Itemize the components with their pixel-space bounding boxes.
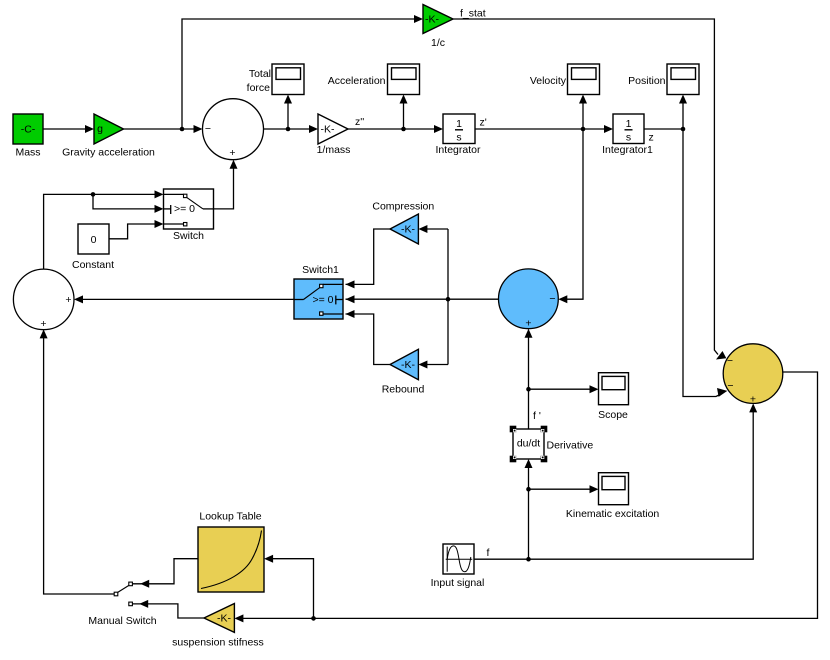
svg-text:Constant: Constant: [72, 259, 114, 271]
svg-text:Acceleration: Acceleration: [328, 75, 386, 87]
svg-text:f ': f ': [533, 410, 541, 422]
svg-text:1/c: 1/c: [431, 37, 445, 49]
svg-text:−: −: [549, 293, 555, 305]
svg-text:du/dt: du/dt: [517, 438, 540, 450]
svg-text:+: +: [750, 394, 756, 406]
svg-text:Rebound: Rebound: [382, 384, 425, 396]
svg-text:-K-: -K-: [321, 124, 336, 136]
svg-text:−: −: [205, 123, 211, 135]
svg-text:g: g: [97, 123, 103, 135]
svg-text:Gravity acceleration: Gravity acceleration: [62, 147, 155, 159]
svg-text:Lookup Table: Lookup Table: [199, 511, 261, 523]
svg-text:z': z': [480, 117, 487, 129]
svg-text:-K-: -K-: [425, 14, 440, 26]
svg-text:-C-: -C-: [21, 124, 36, 136]
svg-text:Total: Total: [249, 68, 271, 80]
svg-text:1: 1: [626, 118, 632, 130]
svg-text:−: −: [727, 380, 733, 392]
svg-text:-K-: -K-: [401, 224, 416, 236]
svg-text:s: s: [626, 132, 631, 144]
svg-text:+: +: [65, 294, 71, 306]
svg-text:>= 0: >= 0: [312, 294, 333, 306]
svg-text:+: +: [525, 318, 531, 330]
svg-text:s: s: [456, 132, 461, 144]
svg-text:Switch1: Switch1: [302, 264, 339, 276]
svg-text:Mass: Mass: [15, 147, 40, 159]
svg-text:Input signal: Input signal: [431, 577, 485, 589]
svg-text:>= 0: >= 0: [174, 203, 195, 215]
svg-text:Kinematic excitation: Kinematic excitation: [566, 508, 660, 520]
svg-text:1/mass: 1/mass: [317, 144, 351, 156]
svg-text:f: f: [487, 547, 490, 559]
svg-text:Integrator1: Integrator1: [602, 144, 653, 156]
svg-text:+: +: [229, 147, 235, 159]
svg-text:Derivative: Derivative: [547, 440, 594, 452]
svg-text:−: −: [727, 355, 733, 367]
svg-text:-K-: -K-: [401, 359, 416, 371]
svg-text:0: 0: [91, 234, 97, 246]
svg-text:suspension stifness: suspension stifness: [172, 637, 264, 649]
svg-text:Integrator: Integrator: [436, 144, 481, 156]
svg-text:Switch: Switch: [173, 230, 204, 242]
svg-text:+: +: [40, 318, 46, 330]
svg-text:z'': z'': [355, 116, 364, 128]
svg-text:f_stat: f_stat: [460, 8, 486, 20]
svg-text:z: z: [649, 132, 654, 144]
svg-text:Compression: Compression: [372, 201, 434, 213]
svg-text:-K-: -K-: [217, 613, 232, 625]
svg-text:force: force: [247, 82, 271, 94]
svg-text:Scope: Scope: [598, 409, 628, 421]
svg-text:Manual Switch: Manual Switch: [88, 615, 156, 627]
svg-text:1: 1: [456, 118, 462, 130]
svg-text:Position: Position: [628, 75, 666, 87]
svg-text:Velocity: Velocity: [530, 75, 567, 87]
